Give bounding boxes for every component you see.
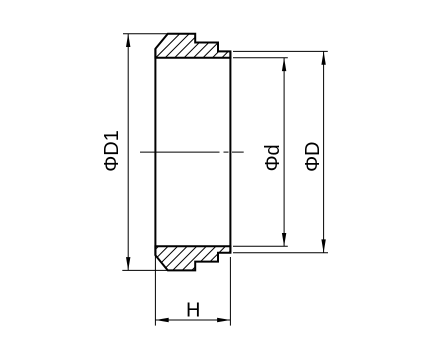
right end face line xyxy=(229,51,231,252)
svg-text:Φd: Φd xyxy=(262,144,284,171)
svg-text:ΦD: ΦD xyxy=(302,141,324,171)
svg-text:ΦD1: ΦD1 xyxy=(101,130,123,172)
dimension H left extension line xyxy=(154,255,156,325)
dimension D1 top extension line xyxy=(123,33,168,35)
dimension H arrow right xyxy=(217,318,230,322)
upper section hatch xyxy=(154,30,250,60)
left end face line xyxy=(154,49,156,256)
dimension D1 bottom extension line xyxy=(122,269,171,271)
dimension D1 arrow down xyxy=(126,257,130,270)
dimension D line xyxy=(323,51,325,252)
lower wall section profile xyxy=(155,246,230,270)
upper wall section profile xyxy=(155,34,230,58)
centerline xyxy=(140,151,244,153)
svg-text:H: H xyxy=(186,299,200,321)
dimension D bottom extension line xyxy=(233,252,328,254)
dimension d line xyxy=(283,58,285,247)
dimension H line xyxy=(155,319,230,321)
dimension H right extension line xyxy=(229,257,231,326)
dimension D1 arrow up xyxy=(126,34,130,47)
dimension d top extension line xyxy=(233,57,288,59)
dimension D arrow down xyxy=(321,239,325,252)
dimension d arrow down xyxy=(282,233,286,246)
dimension D top extension line xyxy=(233,50,328,52)
dimension D1 line xyxy=(127,34,129,271)
dimension D arrow up xyxy=(321,51,325,64)
dimension H arrow left xyxy=(155,318,168,322)
lower section hatch xyxy=(131,244,237,274)
dimension d arrow up xyxy=(282,58,286,71)
dimension d bottom extension line xyxy=(233,245,288,247)
